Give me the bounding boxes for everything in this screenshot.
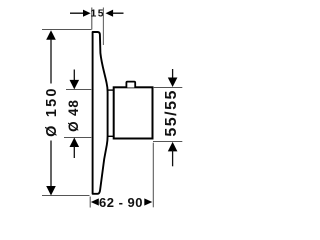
dim 55/55: bottom extension line	[153, 141, 182, 143]
dim Ø48: top arrow	[70, 80, 80, 90]
dim Ø48: bottom arrow	[70, 138, 80, 148]
dim 55/55: bottom arrow	[168, 142, 178, 152]
handle neck top edge	[108, 89, 114, 91]
dim 15: left arrow	[83, 10, 91, 17]
dim Ø48: bottom extension line	[64, 137, 91, 139]
dim Ø150: top extension line	[42, 29, 92, 31]
escutcheon plate (side profile, Ø150)	[93, 32, 108, 194]
dim 15: right arrow	[106, 10, 114, 17]
svg-text:55/55: 55/55	[163, 89, 180, 137]
dim Ø150: dim line upper segment	[50, 39, 52, 84]
dim 62-90: left extension line	[89, 197, 91, 208]
dim 55/55: top arrow	[168, 78, 178, 88]
dim 62-90: right extension line	[152, 143, 154, 208]
dim 62-90: left arrow	[91, 198, 99, 205]
svg-text:Ø 150: Ø 150	[44, 86, 60, 137]
dim Ø48: bottom tail	[73, 146, 75, 158]
dim Ø150: top arrow	[46, 30, 56, 40]
dim Ø150: dim line lower segment	[50, 141, 52, 188]
dim 55/55: top tail	[172, 69, 174, 80]
handle neck bottom edge	[108, 135, 114, 137]
dim 15: right tail	[113, 12, 124, 14]
dim 55/55: bottom tail	[172, 150, 174, 166]
svg-text:62 - 90: 62 - 90	[99, 195, 143, 210]
dim 62-90: right arrow	[144, 198, 152, 205]
dim 15: left extension line	[91, 8, 93, 30]
dim 55/55: top extension line	[153, 87, 182, 89]
dim 15: right extension line	[102, 8, 104, 46]
dim Ø48: top extension line	[66, 89, 91, 91]
svg-text:Ø 48: Ø 48	[66, 99, 81, 131]
dim Ø150: bottom extension line	[42, 195, 90, 197]
handle grip (Ø48)	[114, 87, 153, 138]
dim Ø48: top tail	[73, 70, 75, 85]
dim Ø150: bottom arrow	[46, 186, 56, 196]
dim 15: left tail	[70, 12, 84, 14]
tab on handle top	[126, 82, 135, 88]
